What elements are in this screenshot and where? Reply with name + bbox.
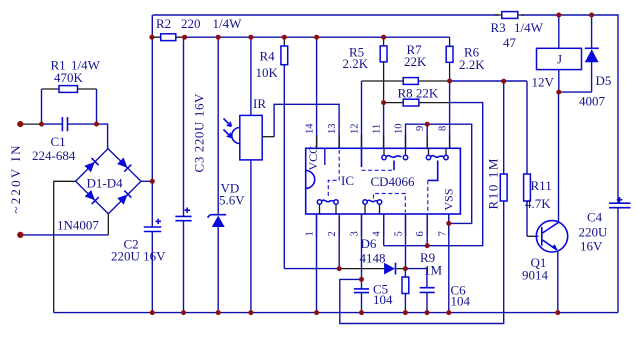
wire R8 line y=102.6 [384,102,450,104]
IC pin stubs top row (into switches) [384,148,446,155]
wire top supply line y=15 (bridge+ to R3/relay) [153,15,618,313]
resistor R9 [404,269,406,313]
wire node line y=81 (R7 R6 R10 R11) [362,80,450,82]
wire VCC to pin14 x=316.6 [316,37,318,148]
svg-text:1/4W: 1/4W [514,20,544,35]
bridge rectifier D1-D4 diamond [76,149,141,214]
diode bridge top-right D2 [117,157,131,171]
zener diode VD [212,216,225,227]
svg-text:9: 9 [415,126,426,131]
node R6/R7 line [447,79,452,84]
svg-text:1M: 1M [424,263,443,278]
wire R6/pin8 branch x=449.6 [449,37,451,81]
node R5/R8/pin11 [381,100,386,105]
svg-text:104: 104 [451,294,471,309]
svg-text:9014: 9014 [522,268,549,283]
svg-text:220: 220 [181,16,201,31]
wire pins 9-10 tie to ground link [406,124,472,223]
resistor R4 [281,46,288,65]
svg-text:2: 2 [327,231,338,236]
wire AC input bottom [107,214,109,235]
svg-text:6: 6 [415,231,426,236]
wire pin5 down [405,214,407,269]
capacitor C5 [361,279,363,312]
IR receiver module [240,115,262,159]
wire ground rail y=312.6 [54,312,618,314]
svg-text:R4: R4 [260,49,276,64]
capacitor C1 [62,117,67,131]
wire C3 branch x=183.5 [183,37,185,312]
terminal top [17,121,23,127]
IC control dash pin13 to switch 1-2 [328,150,339,199]
svg-text:13: 13 [327,124,338,135]
transistor Q1 [536,221,567,252]
svg-text:IR: IR [253,96,266,111]
svg-text:12: 12 [350,124,361,135]
wire Q1 emitter to ground [557,251,559,313]
wire pin2 down [338,214,340,269]
svg-text:1N4007: 1N4007 [57,218,99,233]
relay J [537,48,582,69]
svg-text:R10 1M: R10 1M [486,157,501,210]
analog switch pins 9-8 [426,155,430,159]
svg-text:16V: 16V [580,239,603,254]
node bridge+ [150,179,155,184]
svg-text:~220V IN: ~220V IN [8,143,23,213]
svg-text:VSS: VSS [442,188,456,210]
resistor R6 [446,46,453,62]
wire D6 line y=268.6 [284,268,339,270]
analog switch pins 1-2 [317,200,321,204]
svg-text:R11: R11 [531,178,552,193]
wire IR output to pin13 [262,136,274,138]
wire pin7 to ground [448,214,450,313]
wire R10 branch x=503.7 [340,81,504,323]
wire zener VD branch x=218.2 [217,37,219,312]
IC CD4066 body [306,148,461,214]
node R10 top [501,79,506,84]
node pin7 ground link [446,221,451,226]
svg-text:1/4W: 1/4W [213,16,243,31]
svg-text:D6: D6 [361,236,377,251]
node relay bottom [556,90,561,95]
capacitor C6 [420,288,435,293]
IC VCC arc [306,171,315,189]
svg-text:8: 8 [438,126,449,131]
svg-text:CD4066: CD4066 [371,174,416,189]
svg-text:4.7K: 4.7K [525,196,551,211]
wire VCC rail y=37.2 [185,36,450,38]
wire pin6 stub [426,214,428,246]
wire pin1 to ground [316,214,318,313]
svg-text:J: J [557,52,562,67]
svg-text:R8 22K: R8 22K [398,86,439,101]
resistor R2 [152,36,185,38]
svg-text:5: 5 [394,231,405,236]
svg-text:C3 220U 16V: C3 220U 16V [192,93,207,173]
analog switch pins 3-4 [363,200,367,204]
svg-text:R3: R3 [491,20,506,35]
wire pin3 down to C5 [361,214,363,279]
node pin6/R8 [425,243,430,248]
svg-text:104: 104 [373,292,393,307]
svg-text:5.6V: 5.6V [219,193,245,208]
wire pin4 stub [383,214,385,246]
wire pin12 vertical x=361.5 [361,81,363,148]
resistor R10 [500,174,507,201]
capacitor C2 [144,227,162,232]
svg-text:IC: IC [341,173,354,188]
svg-text:47: 47 [503,35,517,50]
wire R5/pin11 branch x=383.6 [383,37,385,103]
IC pin stubs black near edges [317,135,450,148]
wire R11 branch x=527 [526,81,528,236]
svg-text:14: 14 [305,123,316,134]
node R1 left [39,122,44,127]
svg-text:11: 11 [372,124,383,134]
wire IR branch x=250.9 [250,37,252,312]
svg-text:220U: 220U [579,225,609,240]
resistor R3 [495,14,524,16]
analog switch pins 11-10 [382,155,386,159]
svg-text:12V: 12V [532,75,555,90]
diode D5 [591,15,593,92]
resistor R1 loop [42,89,97,124]
svg-text:R2: R2 [156,16,171,31]
svg-text:2.2K: 2.2K [459,57,485,72]
svg-text:470K: 470K [54,70,84,85]
svg-text:22K: 22K [404,54,427,69]
svg-text:4007: 4007 [579,94,606,109]
wire pin9 stub [426,124,428,148]
resistor R11 [524,174,531,201]
rail dots y=37.2 [149,35,154,40]
svg-text:224-684: 224-684 [32,148,76,163]
svg-text:D5: D5 [596,73,612,88]
svg-text:4148: 4148 [360,251,386,266]
resistor R5 [380,46,387,62]
wire R4 branch x=284.3 [283,37,285,46]
wire AC input top [20,123,41,125]
wire bridge left corner to ground [54,181,76,312]
top line dots y=15 [556,13,561,18]
node pin3/C5/feedback [359,277,364,282]
diode bridge bottom-right D4 [117,191,131,205]
svg-text:220U 16V: 220U 16V [111,249,166,264]
node D6/R9/pin5 [403,266,408,271]
wire relay node to Q1 collector [558,92,560,221]
IC pin14 inside stub [324,148,326,165]
svg-text:2.2K: 2.2K [343,56,369,71]
node R1 right [94,122,99,127]
svg-text:7: 7 [438,231,449,236]
wire bridge right corner to + node [141,180,152,182]
node pin2/D6 [337,266,342,271]
diode D6 [384,263,395,275]
svg-text:10: 10 [394,124,405,135]
resistor R8 [403,99,419,106]
wire relay to D5 link [559,91,592,93]
svg-text:3: 3 [350,231,361,236]
svg-text:1: 1 [305,231,316,236]
ground rail dots y=312.6 [150,310,155,315]
node pin9 tie [425,122,430,127]
capacitor C4 [609,203,631,208]
svg-text:C4: C4 [587,210,603,225]
IC control dash switch 3-4 to pin5 [374,194,406,213]
resistor R7 [403,78,418,85]
svg-text:D1-D4: D1-D4 [87,176,124,191]
svg-text:10K: 10K [256,65,279,80]
wire bridge+ vertical x=152.3 with C2 [151,15,153,313]
diode bridge bottom-left D3 [84,190,98,204]
IC control dash pin12 to switch 11-10 [362,148,395,170]
svg-text:C1: C1 [51,134,66,149]
capacitor C3 [175,216,191,220]
terminal bottom [17,232,23,238]
svg-text:VCC: VCC [306,146,320,171]
diode bridge top-left D1 [84,158,98,172]
IC control dash switch 9-8 to pin6 [428,161,438,181]
